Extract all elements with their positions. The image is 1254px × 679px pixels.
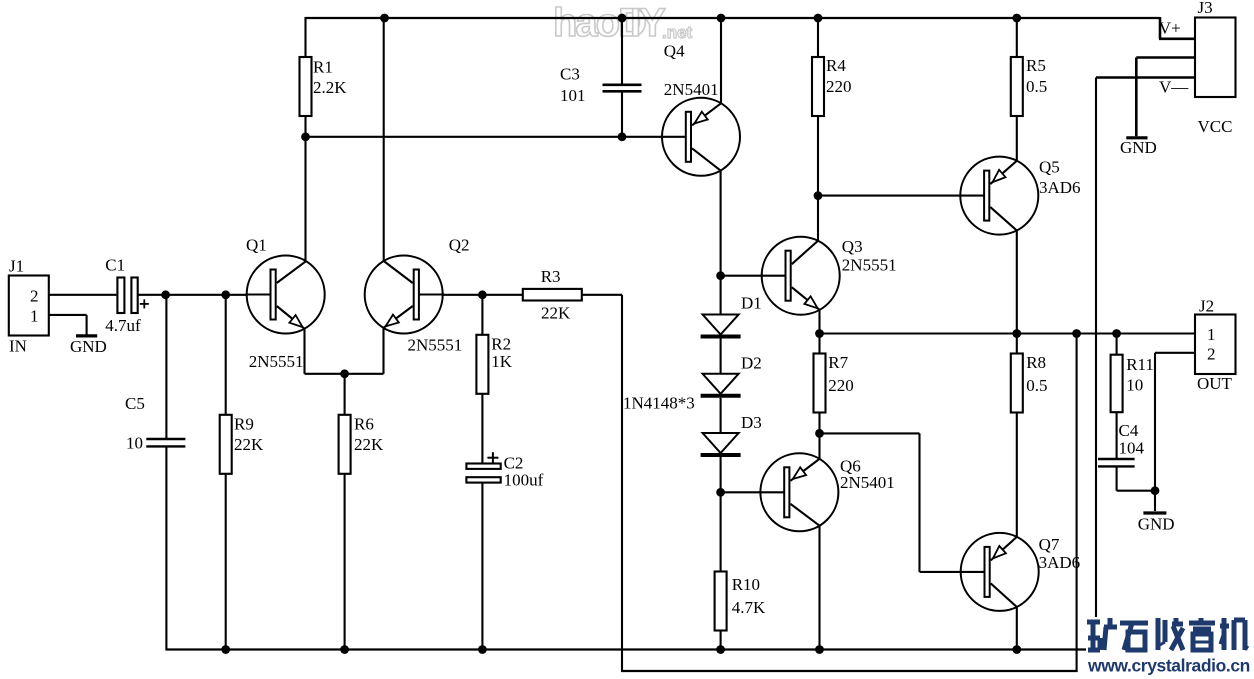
svg-text:IY: IY (630, 1, 666, 45)
wire feedback vertical left (621, 295, 623, 671)
svg-text:2N5551: 2N5551 (842, 256, 897, 275)
wire feedback bottom horizontal (621, 670, 1078, 672)
ground at J3 (1126, 136, 1147, 139)
junction node Q4 collector / Q3 base / D1 (716, 271, 725, 280)
resistor R3 22K (523, 289, 582, 301)
diode D2 (703, 374, 739, 394)
junction node Q5 collector / R8 / output (1012, 329, 1021, 338)
junction node R7 bottom / Q6 emitter / Q7 base link (815, 429, 824, 438)
wire J1 pin1 (49, 314, 87, 316)
resistor R10 4.7K (715, 572, 727, 631)
resistor R9 22K (220, 415, 232, 474)
wire R2 top lead (481, 295, 483, 335)
svg-text:2N5401: 2N5401 (664, 80, 719, 99)
svg-text:GND: GND (1120, 138, 1157, 157)
junction node top rail / Q4 emitter (717, 14, 726, 23)
junction node bottom rail / Q6 collector (815, 645, 824, 654)
wire Q4 emitter to rail (720, 18, 722, 103)
wire C3 top lead (621, 18, 623, 84)
svg-text:R4: R4 (826, 56, 846, 75)
wire D1-D2 (720, 339, 722, 374)
svg-text:10: 10 (1126, 376, 1143, 395)
wire Q6 collector down (818, 526, 820, 650)
wire R4 bottom lead (817, 116, 819, 196)
wire Q5 base (818, 195, 983, 197)
svg-text:2: 2 (1207, 345, 1216, 364)
wire V- to J3 (1096, 76, 1195, 79)
svg-text:101: 101 (560, 86, 586, 105)
svg-text:C1: C1 (105, 256, 125, 275)
wire J2 pin2 (1155, 352, 1195, 354)
svg-text:1K: 1K (491, 352, 513, 371)
svg-text:2.2K: 2.2K (313, 78, 347, 97)
resistor R2 1K (476, 335, 488, 394)
wire D2-D3 (720, 398, 722, 433)
svg-text:.net: .net (662, 23, 693, 42)
junction node top rail / Q2 collector (380, 14, 389, 23)
svg-text:D1: D1 (741, 294, 762, 313)
svg-text:VCC: VCC (1198, 117, 1233, 136)
svg-text:R8: R8 (1026, 353, 1046, 372)
svg-text:22K: 22K (234, 435, 264, 454)
junction node emitters / R6 (340, 369, 349, 378)
junction node bottom rail / Q7 collector (1012, 645, 1021, 654)
wire R7 node to Q7 base part2 (918, 433, 920, 572)
svg-text:J1: J1 (9, 257, 24, 276)
svg-text:Q2: Q2 (449, 236, 470, 255)
wire J1 pin2 to C1 (49, 294, 117, 296)
wire R1 top lead (304, 17, 306, 57)
wire R7 node to Q7 base part1 (820, 432, 920, 434)
wire Q7 collector down (1016, 607, 1018, 650)
connector J1 (9, 276, 49, 336)
junction node top rail / C3 (618, 14, 627, 23)
svg-text:1: 1 (1207, 325, 1216, 344)
connector J2 (1195, 315, 1236, 375)
connector J3 (1195, 18, 1236, 98)
capacitor C1 4.7uf (117, 278, 124, 314)
junction node R4 / Q3 collector / Q5 base (814, 191, 823, 200)
wire R11 to C4 (1116, 412, 1118, 458)
svg-text:100uf: 100uf (504, 471, 544, 490)
wire R10 bottom lead (720, 631, 722, 650)
resistor R7 220 (814, 354, 826, 413)
svg-text:2: 2 (30, 287, 39, 306)
wire Q3 collector lead (817, 196, 819, 241)
svg-text:220: 220 (826, 77, 852, 96)
svg-text:Q3: Q3 (842, 237, 863, 256)
svg-text:OUT: OUT (1197, 374, 1233, 393)
junction node bottom rail / R10 (716, 645, 725, 654)
svg-text:www.crystalradio.cn: www.crystalradio.cn (1087, 656, 1250, 676)
wire Q6 base (721, 491, 784, 493)
diode D3 (703, 433, 739, 453)
svg-text:3AD6: 3AD6 (1039, 178, 1081, 197)
wire V+ top rail (306, 17, 1161, 19)
wire Q2 collector to rail (383, 18, 385, 261)
capacitor C5 10 (146, 438, 185, 440)
junction node top rail / R4 (814, 14, 823, 23)
wire input node to C5 (165, 295, 167, 438)
transistor Q3 2N5551 (762, 237, 840, 315)
svg-text:2N5401: 2N5401 (840, 473, 895, 492)
svg-text:C4: C4 (1119, 421, 1139, 440)
capacitor C2 100uf (466, 464, 500, 469)
svg-text:1: 1 (30, 307, 39, 326)
svg-text:C3: C3 (560, 65, 580, 84)
svg-text:R1: R1 (313, 58, 333, 77)
svg-text:Q4: Q4 (664, 42, 685, 61)
wire emitter join horizontal (305, 373, 384, 375)
svg-text:D3: D3 (741, 413, 762, 432)
wire Q1 emitter down (303, 329, 305, 374)
wire Q4 collector down (720, 170, 722, 275)
transistor Q4 2N5401 (662, 98, 740, 176)
transistor Q6 2N5401 (760, 453, 838, 531)
svg-text:10: 10 (126, 434, 143, 453)
diode D1 (703, 315, 739, 335)
resistor R6 22K (339, 415, 351, 474)
wire node A horizontal (R1 bottom to Q4 base) (306, 136, 686, 138)
svg-text:R2: R2 (491, 335, 511, 354)
svg-text:4.7K: 4.7K (732, 598, 766, 617)
capacitor C4 104 (1098, 458, 1135, 460)
wire C1 to Q1 base (138, 294, 247, 296)
svg-text:3AD6: 3AD6 (1039, 553, 1081, 572)
ground at J2 (1143, 511, 1166, 514)
svg-text:R11: R11 (1126, 355, 1154, 374)
junction node D3 / Q6 base / R10 (716, 488, 725, 497)
svg-text:R3: R3 (541, 267, 561, 286)
ground at J1 (76, 334, 97, 337)
svg-text:R6: R6 (354, 415, 374, 434)
svg-text:2N5551: 2N5551 (408, 336, 463, 355)
svg-text:V—: V— (1159, 78, 1189, 97)
wire D1 top lead (720, 276, 722, 315)
wire R6 top lead (344, 374, 346, 415)
wire R9 bottom lead (225, 474, 227, 650)
svg-text:IN: IN (9, 337, 27, 356)
svg-text:J3: J3 (1198, 0, 1213, 17)
wire output rail (820, 332, 1196, 334)
watermark crystalradio.cn (1086, 617, 1250, 677)
junction node bottom rail / R6 (340, 645, 349, 654)
svg-text:R10: R10 (732, 575, 760, 594)
svg-text:0.5: 0.5 (1026, 376, 1047, 395)
wire Q3 emitter lead (818, 310, 820, 333)
junction node input / R9 (221, 290, 230, 299)
svg-text:22K: 22K (354, 435, 384, 454)
junction node output / feedback (1072, 329, 1081, 338)
wire feedback vertical right (1076, 334, 1078, 673)
svg-text:Q5: Q5 (1039, 158, 1060, 177)
wire R9 top lead (225, 295, 227, 415)
wire Q2 emitter down (382, 328, 384, 373)
svg-text:1N4148*3: 1N4148*3 (623, 394, 695, 413)
junction node Q3 emitter / R7 / output (815, 329, 824, 338)
svg-text:0.5: 0.5 (1026, 77, 1047, 96)
capacitor C3 101 (603, 84, 642, 87)
resistor R11 10 (1111, 355, 1123, 413)
wire C4 bottom lead (1116, 467, 1118, 491)
junction node top rail / R5 (1012, 14, 1021, 23)
wire R2 to C2 (481, 394, 483, 463)
wire R7 bottom lead (818, 413, 820, 434)
svg-text:C5: C5 (125, 394, 145, 413)
svg-text:D2: D2 (741, 354, 762, 373)
junction node Q2 base / R2 / R3 (478, 290, 487, 299)
wire Q2 base to R3 (419, 294, 522, 296)
svg-text:GND: GND (70, 337, 107, 356)
svg-text:220: 220 (828, 376, 854, 395)
wire GND stem at J2 (1154, 491, 1156, 511)
watermark haoDIY.net (553, 1, 693, 45)
wire R11 top lead (1116, 334, 1118, 355)
wire R8 to Q7 emitter (1016, 413, 1018, 537)
wire R6 bottom lead (344, 474, 346, 650)
wire R3 right to feedback (582, 294, 622, 296)
wire C3 bottom lead (621, 92, 623, 137)
wire Q3 base (721, 275, 785, 277)
wire D3 node to R10 (720, 492, 722, 571)
wire J3 mid pin (1136, 56, 1195, 59)
svg-text:Q1: Q1 (246, 236, 267, 255)
wire V- rail vertical (1095, 78, 1097, 651)
transistor Q5 3AD6 (960, 157, 1038, 235)
resistor R8 0.5 (1011, 354, 1023, 413)
wire V+ step to J3 (1159, 17, 1162, 39)
junction node bottom rail / R9 (221, 645, 230, 654)
junction node C3 bottom (618, 132, 627, 141)
resistor R1 2.2K (300, 57, 312, 116)
transistor Q2 2N5551 (365, 256, 443, 334)
resistor R5 0.5 (1011, 57, 1023, 116)
wire R8 top lead (1016, 334, 1018, 354)
wire C5 bottom lead (165, 447, 167, 650)
transistor Q7 3AD6 (961, 533, 1039, 611)
svg-text:R9: R9 (234, 415, 254, 434)
svg-text:R7: R7 (828, 353, 848, 372)
junction node output / R11 (1112, 329, 1121, 338)
wire Q6 emitter up (818, 433, 820, 458)
wire bottom rail (166, 648, 1096, 650)
junction node input / C5 (161, 290, 170, 299)
wire R4 top lead (817, 17, 819, 57)
wire R1 bottom / Q1 collector (304, 116, 306, 261)
wire R7 top lead (818, 334, 820, 354)
wire R5 to Q5 emitter (1016, 116, 1018, 161)
svg-text:GND: GND (1138, 515, 1175, 534)
wire R7 node to Q7 base part3 (920, 571, 984, 573)
svg-text:J2: J2 (1199, 297, 1214, 316)
junction node bottom rail / C2 (478, 645, 487, 654)
svg-text:V+: V+ (1159, 19, 1181, 38)
svg-text:Q7: Q7 (1039, 535, 1060, 554)
transistor Q1 2N5551 (247, 256, 325, 334)
wire R5 top lead (1016, 17, 1018, 57)
wire Q5 collector down (1016, 231, 1018, 334)
svg-text:22K: 22K (541, 304, 571, 323)
resistor R4 220 (812, 57, 824, 116)
wire C2 bottom lead (481, 483, 483, 650)
svg-text:104: 104 (1119, 439, 1145, 458)
junction node C4 / J2 pin2 / GND (1151, 486, 1160, 495)
svg-text:4.7uf: 4.7uf (105, 316, 141, 335)
junction node R1 bottom (301, 132, 310, 141)
svg-text:2N5551: 2N5551 (249, 352, 304, 371)
wire D3 bottom lead (720, 457, 722, 492)
svg-text:R5: R5 (1026, 56, 1046, 75)
